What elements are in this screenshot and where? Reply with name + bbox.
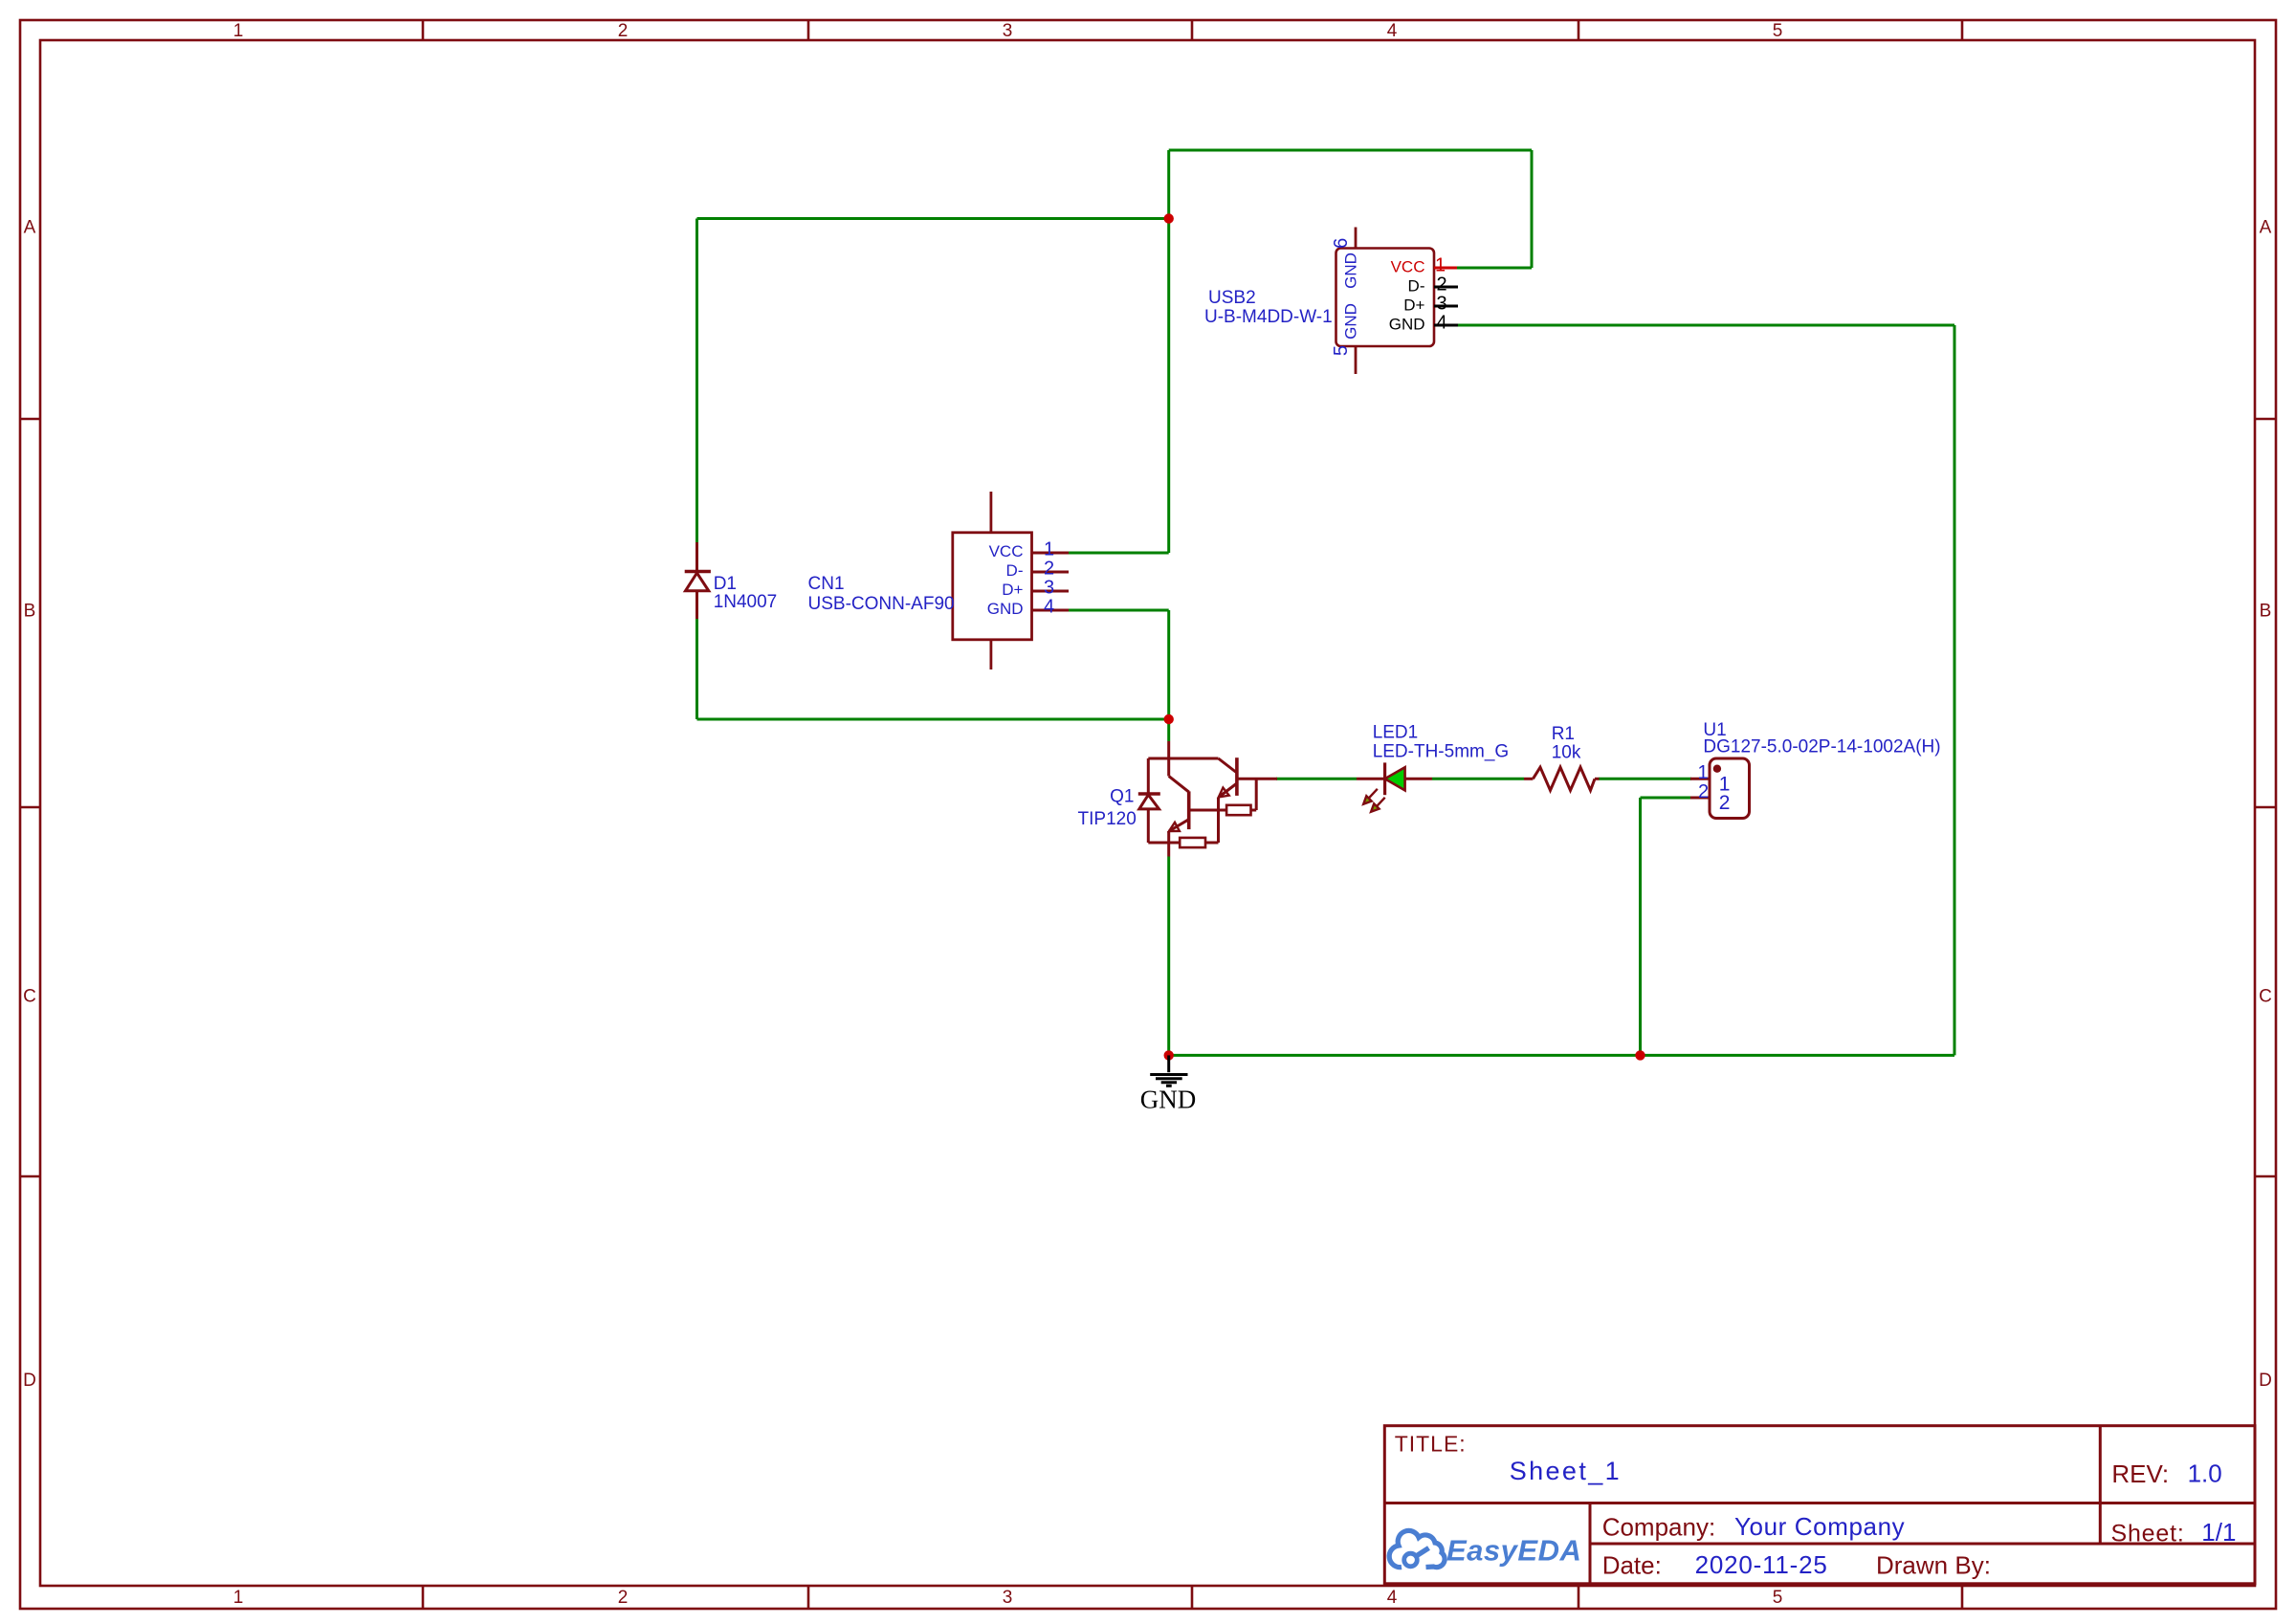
LED1 cathode lead: [1357, 778, 1385, 780]
wire CN1 pin1 horizontal: [1069, 552, 1169, 555]
wire bottom-left horizontal to junction: [697, 718, 1169, 721]
wire Q1 emitter down to gnd junction: [1167, 857, 1170, 1056]
Q1 bottom bar left: [1148, 842, 1180, 845]
title block company/date divider: [1590, 1543, 2255, 1546]
row tick marks right: [2255, 419, 2276, 1176]
svg-text:1/1: 1/1: [2201, 1518, 2236, 1547]
svg-text:GND: GND: [1342, 303, 1360, 340]
svg-text:B: B: [24, 602, 36, 622]
wire U1 pin2 vertical down: [1639, 798, 1642, 1055]
Q1 left vertical lower: [1147, 809, 1150, 843]
svg-text:CN1: CN1: [808, 574, 845, 594]
svg-text:5: 5: [1773, 1588, 1783, 1608]
Q1 T2 collector diagonal: [1169, 776, 1189, 792]
svg-text:GND: GND: [987, 600, 1024, 618]
svg-text:D+: D+: [1002, 581, 1023, 599]
svg-text:D1: D1: [714, 574, 737, 594]
USB2 pin 5 stub bottom: [1355, 346, 1358, 374]
svg-text:Sheet_1: Sheet_1: [1510, 1457, 1622, 1485]
Q1 T1 base line: [1237, 778, 1277, 780]
GND stub: [1167, 1055, 1170, 1072]
svg-text:B: B: [2260, 602, 2272, 622]
svg-text:Date:: Date:: [1602, 1551, 1662, 1580]
wire USB2 pin4 horizontal: [1458, 324, 1954, 327]
led LED1 LED-TH-5mm_G: [1357, 762, 1432, 811]
LED1 emission arrow 1: [1363, 789, 1378, 804]
Q1 right vertical to T2 base node: [1217, 810, 1220, 843]
R1 right lead: [1595, 778, 1600, 780]
LED1 anode lead: [1405, 778, 1432, 780]
svg-text:LED-TH-5mm_G: LED-TH-5mm_G: [1373, 742, 1510, 762]
row tick marks left: [20, 419, 40, 1176]
USB2 pin 2 stub: [1434, 286, 1458, 289]
svg-text:1: 1: [233, 1588, 244, 1608]
svg-text:1: 1: [233, 21, 244, 41]
svg-text:3: 3: [1436, 294, 1446, 315]
svg-text:1N4007: 1N4007: [714, 592, 778, 612]
svg-text:VCC: VCC: [989, 542, 1024, 560]
svg-text:D+: D+: [1403, 296, 1424, 315]
title block outer box: [1384, 1426, 2255, 1584]
column tick marks bottom: [423, 1586, 1962, 1609]
Q1 internal resistor R1 right lead: [1251, 809, 1257, 812]
svg-text:10k: 10k: [1552, 743, 1581, 763]
Q1 T2 emitter arrowhead: [1169, 823, 1180, 831]
svg-text:USB-CONN-AF90: USB-CONN-AF90: [808, 594, 955, 614]
Q1 T1 collector diagonal: [1219, 758, 1237, 773]
CN1 pin 5 stub bottom: [990, 640, 993, 669]
svg-text:USB2: USB2: [1208, 288, 1256, 308]
CN1 pin 2 stub: [1032, 571, 1070, 574]
svg-text:VCC: VCC: [1391, 258, 1425, 276]
CN1 pin 1 stub: [1032, 552, 1070, 555]
USB2 body: [1336, 249, 1435, 347]
svg-text:A: A: [2260, 218, 2272, 238]
title block rev column divider: [2099, 1426, 2102, 1544]
U1 pin1 marker dot: [1713, 765, 1721, 773]
GND bar 1: [1150, 1073, 1187, 1076]
GND bar 4: [1166, 1085, 1172, 1087]
svg-text:GND: GND: [1140, 1086, 1197, 1114]
svg-text:A: A: [24, 218, 36, 238]
Q1 T1 base bar: [1235, 757, 1239, 796]
wire junction to Q1 collector: [1167, 719, 1170, 741]
svg-text:2020-11-25: 2020-11-25: [1695, 1550, 1828, 1579]
title block logo cell divider: [1589, 1503, 1592, 1584]
Q1 bottom bar right: [1205, 842, 1219, 845]
wire left vertical above D1: [695, 219, 698, 543]
Q1 internal diode triangle: [1139, 795, 1159, 809]
D1 anode lead: [695, 591, 698, 619]
LED1 cathode bar: [1383, 762, 1386, 795]
column tick marks top: [423, 20, 1962, 40]
svg-text:4: 4: [1044, 597, 1054, 618]
svg-text:Sheet:: Sheet:: [2111, 1521, 2185, 1547]
svg-text:2: 2: [618, 1588, 629, 1608]
title block row divider 1: [1384, 1502, 2255, 1504]
Q1 T2 base bar: [1187, 791, 1191, 829]
svg-text:TIP120: TIP120: [1078, 809, 1137, 829]
junction dot at collector tee: [1164, 714, 1174, 724]
Q1 T2 emitter diagonal: [1169, 820, 1189, 831]
wire R1 to U1 pin1: [1599, 778, 1691, 780]
junction dot at U1 pin2 gnd tee: [1635, 1050, 1645, 1060]
svg-text:R1: R1: [1552, 724, 1575, 744]
wire left vertical below D1: [695, 619, 698, 719]
wire USB2 pin1 to corner: [1456, 267, 1532, 270]
Q1 T2 emitter vertical: [1167, 831, 1170, 843]
Q1 T1 emitter arrowhead: [1219, 788, 1229, 798]
Q1 collector lead: [1167, 741, 1170, 758]
Q1 internal resistor R1 left lead: [1219, 809, 1227, 812]
connector USB2 U-B-M4DD-W-1: [1204, 228, 1458, 375]
wire U1 pin2 horizontal: [1641, 797, 1692, 800]
svg-text:Q1: Q1: [1110, 787, 1134, 807]
svg-text:D-: D-: [1408, 277, 1425, 296]
wire left branch horizontal top: [697, 217, 1169, 220]
wire VCC top loop right vertical: [1531, 150, 1534, 268]
svg-text:LED1: LED1: [1373, 723, 1419, 743]
Q1 internal diode bar: [1138, 792, 1160, 795]
R1 left lead: [1524, 778, 1533, 780]
LED1 triangle: [1385, 767, 1405, 790]
svg-text:1: 1: [1435, 255, 1446, 276]
Q1 left vertical upper: [1147, 758, 1150, 794]
svg-text:4: 4: [1387, 21, 1398, 41]
USB2 pin 6 stub top: [1355, 228, 1358, 249]
D1 triangle: [686, 573, 709, 591]
D1 cathode lead: [695, 542, 698, 572]
USB2 pin 3 stub: [1434, 305, 1458, 308]
USB2 pin 4 stub: [1434, 324, 1458, 327]
junction dot at VCC tee: [1164, 213, 1174, 223]
svg-text:C: C: [23, 987, 36, 1007]
Q1 T2 base line: [1189, 809, 1219, 812]
svg-text:6: 6: [1331, 238, 1352, 249]
svg-text:EasyEDA: EasyEDA: [1446, 1534, 1581, 1568]
connector CN1 USB-CONN-AF90: [808, 492, 1070, 669]
svg-text:2: 2: [1698, 781, 1709, 802]
wire VCC top loop horizontal: [1169, 149, 1532, 152]
wire main vertical VCC: [1167, 150, 1170, 553]
svg-text:Drawn By:: Drawn By:: [1876, 1551, 1991, 1580]
diode D1 1N4007: [685, 542, 711, 619]
Q1 internal resistor R1 box: [1226, 805, 1250, 815]
svg-text:GND: GND: [1389, 316, 1425, 334]
svg-text:D: D: [23, 1371, 36, 1391]
svg-text:1.0: 1.0: [2188, 1459, 2222, 1488]
wire CN1 pin4 vertical: [1167, 610, 1170, 719]
GND bar 2: [1156, 1077, 1182, 1080]
U1 pin 1 stub: [1690, 778, 1710, 780]
Q1 internal resistor R1 vertical to base: [1255, 779, 1258, 810]
svg-text:D-: D-: [1006, 561, 1024, 580]
CN1 body: [953, 533, 1032, 640]
resistor R1 10k: [1524, 767, 1600, 790]
svg-text:DG127-5.0-02P-14-1002A(H): DG127-5.0-02P-14-1002A(H): [1703, 737, 1940, 757]
Q1 T2 collector vertical: [1167, 758, 1170, 776]
svg-text:2: 2: [1436, 274, 1446, 296]
svg-text:2: 2: [1719, 792, 1731, 814]
svg-text:2: 2: [618, 21, 629, 41]
wire LED1 to R1: [1432, 778, 1524, 780]
GND bar 3: [1161, 1081, 1177, 1084]
svg-text:Your Company: Your Company: [1734, 1512, 1905, 1541]
svg-text:3: 3: [1044, 578, 1054, 599]
svg-text:GND: GND: [1342, 252, 1360, 289]
D1 cathode bar: [685, 570, 711, 574]
svg-text:4: 4: [1436, 313, 1446, 334]
svg-text:2: 2: [1044, 559, 1054, 580]
connector U1 DG127: [1690, 758, 1750, 819]
wire right vertical gnd net: [1954, 325, 1956, 1055]
svg-text:3: 3: [1003, 21, 1013, 41]
CN1 pin 3 stub: [1032, 590, 1070, 593]
Q1 internal resistor R2 box: [1180, 838, 1205, 847]
svg-text:TITLE:: TITLE:: [1395, 1432, 1467, 1457]
Q1 T1 emitter node vertical: [1217, 798, 1220, 810]
Q1 top bar: [1148, 757, 1218, 760]
Q1 emitter pin lead: [1167, 843, 1170, 857]
wire bottom horizontal gnd net: [1169, 1054, 1954, 1057]
svg-text:1: 1: [1697, 762, 1708, 783]
transistor Q1 TIP120: [1138, 741, 1277, 857]
svg-text:4: 4: [1387, 1588, 1398, 1608]
svg-text:D: D: [2259, 1371, 2272, 1391]
svg-text:5: 5: [1773, 21, 1783, 41]
wire Q1 base to LED1: [1276, 778, 1357, 780]
ground symbol GND: [1150, 1055, 1187, 1086]
TITLEBLOCK: [1384, 1426, 2255, 1584]
U1 pin 2 stub: [1690, 797, 1710, 800]
svg-text:Company:: Company:: [1602, 1513, 1716, 1542]
R1 zigzag: [1533, 767, 1595, 790]
EasyEDA logo cloud icon: [1389, 1530, 1445, 1567]
LED1 emission arrow 2: [1371, 798, 1385, 812]
svg-text:U-B-M4DD-W-1: U-B-M4DD-W-1: [1204, 307, 1333, 327]
svg-text:5: 5: [1331, 345, 1352, 356]
wire CN1 pin4 horizontal: [1069, 609, 1169, 612]
CN1 pin 6 stub top: [990, 492, 993, 533]
svg-text:1: 1: [1044, 539, 1054, 560]
USB2 pin 1 stub (red): [1434, 267, 1457, 270]
Q1 T1 emitter diagonal: [1219, 783, 1237, 798]
CN1 pin 4 stub: [1032, 609, 1070, 612]
svg-text:REV:: REV:: [2111, 1459, 2169, 1488]
junction dot at gnd symbol: [1164, 1050, 1174, 1060]
U1 body: [1710, 758, 1750, 819]
svg-text:C: C: [2259, 987, 2272, 1007]
svg-text:3: 3: [1003, 1588, 1013, 1608]
